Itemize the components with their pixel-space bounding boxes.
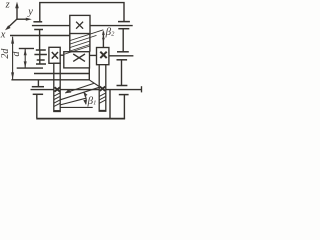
svg-text:y: y <box>27 7 33 18</box>
spindle bar left bottom <box>54 110 60 112</box>
shaft 3 end tick <box>141 86 143 92</box>
mesh 1 hatch line into hub <box>64 46 90 54</box>
bearing box R <box>97 48 109 65</box>
frame bottom left <box>36 94 38 118</box>
d extension bottom <box>17 67 43 69</box>
shaft 3 <box>31 89 142 91</box>
svg-text:2d: 2d <box>0 48 11 59</box>
shaft 2 right extension <box>109 55 133 57</box>
d top arrow <box>24 49 27 55</box>
gear 1 box <box>70 15 90 33</box>
svg-text:x: x <box>0 30 6 41</box>
y axis <box>17 18 28 20</box>
dimension d line <box>24 49 26 68</box>
housing diagonal to right spindle <box>89 80 99 87</box>
spindle bar left <box>54 63 60 111</box>
housing line y=35.5 / 2d top extension <box>10 35 70 37</box>
mesh 2 bottom line <box>60 106 92 108</box>
spindle bar right <box>99 65 106 112</box>
bearing shaft1 right <box>118 21 130 23</box>
beta2 down arrow <box>102 38 105 43</box>
mesh 1 rect <box>69 34 71 53</box>
beta1 arc <box>84 92 86 104</box>
gear 2 cross <box>73 54 85 61</box>
ground bars right of box R <box>117 51 129 53</box>
y arrowhead <box>26 18 32 21</box>
bearing shaft1 left <box>33 21 42 23</box>
shaft 2 stubs <box>60 54 96 56</box>
spindle bar right hatch <box>99 93 106 103</box>
d bottom arrow <box>24 61 27 67</box>
d extension top <box>19 48 34 50</box>
shaft 1 <box>32 25 133 27</box>
beta2 up arrow <box>102 30 105 35</box>
mesh2 arrowhead <box>65 89 71 93</box>
mesh 1 hatch <box>70 30 104 51</box>
bearing shaft3 left <box>37 80 39 87</box>
2d top arrow <box>11 37 14 44</box>
dimension 2d line <box>12 37 14 80</box>
2d bottom extension <box>11 79 89 81</box>
spindle bar right cross <box>100 87 106 91</box>
x arrowhead <box>5 25 11 30</box>
beta1 arc bottom arrowhead <box>83 100 87 105</box>
z arrowhead <box>15 2 19 9</box>
mesh 2 diagonals <box>65 83 94 93</box>
x axis <box>8 19 17 28</box>
beta2 pointer line <box>102 32 104 48</box>
z axis <box>16 5 18 20</box>
bearing box L <box>49 47 60 63</box>
spindle bar left cross <box>55 87 61 91</box>
beta1 arc top arrowhead <box>84 92 88 97</box>
housing L-line y=73.5 <box>34 73 89 75</box>
top frame <box>40 3 124 22</box>
2d bottom arrow <box>11 72 14 79</box>
gear 1 cross <box>76 22 83 29</box>
ground bars left of box L <box>36 49 46 51</box>
spindle bar right bottom <box>99 110 106 112</box>
gear 2 hub box <box>64 52 90 68</box>
right lower frame vertical <box>109 90 111 119</box>
svg-text:z: z <box>5 0 10 11</box>
bar below shaft3 right <box>119 94 129 96</box>
spindle bar left hatch <box>54 93 60 107</box>
svg-text:β2: β2 <box>105 26 115 38</box>
svg-text:β1: β1 <box>87 95 97 107</box>
